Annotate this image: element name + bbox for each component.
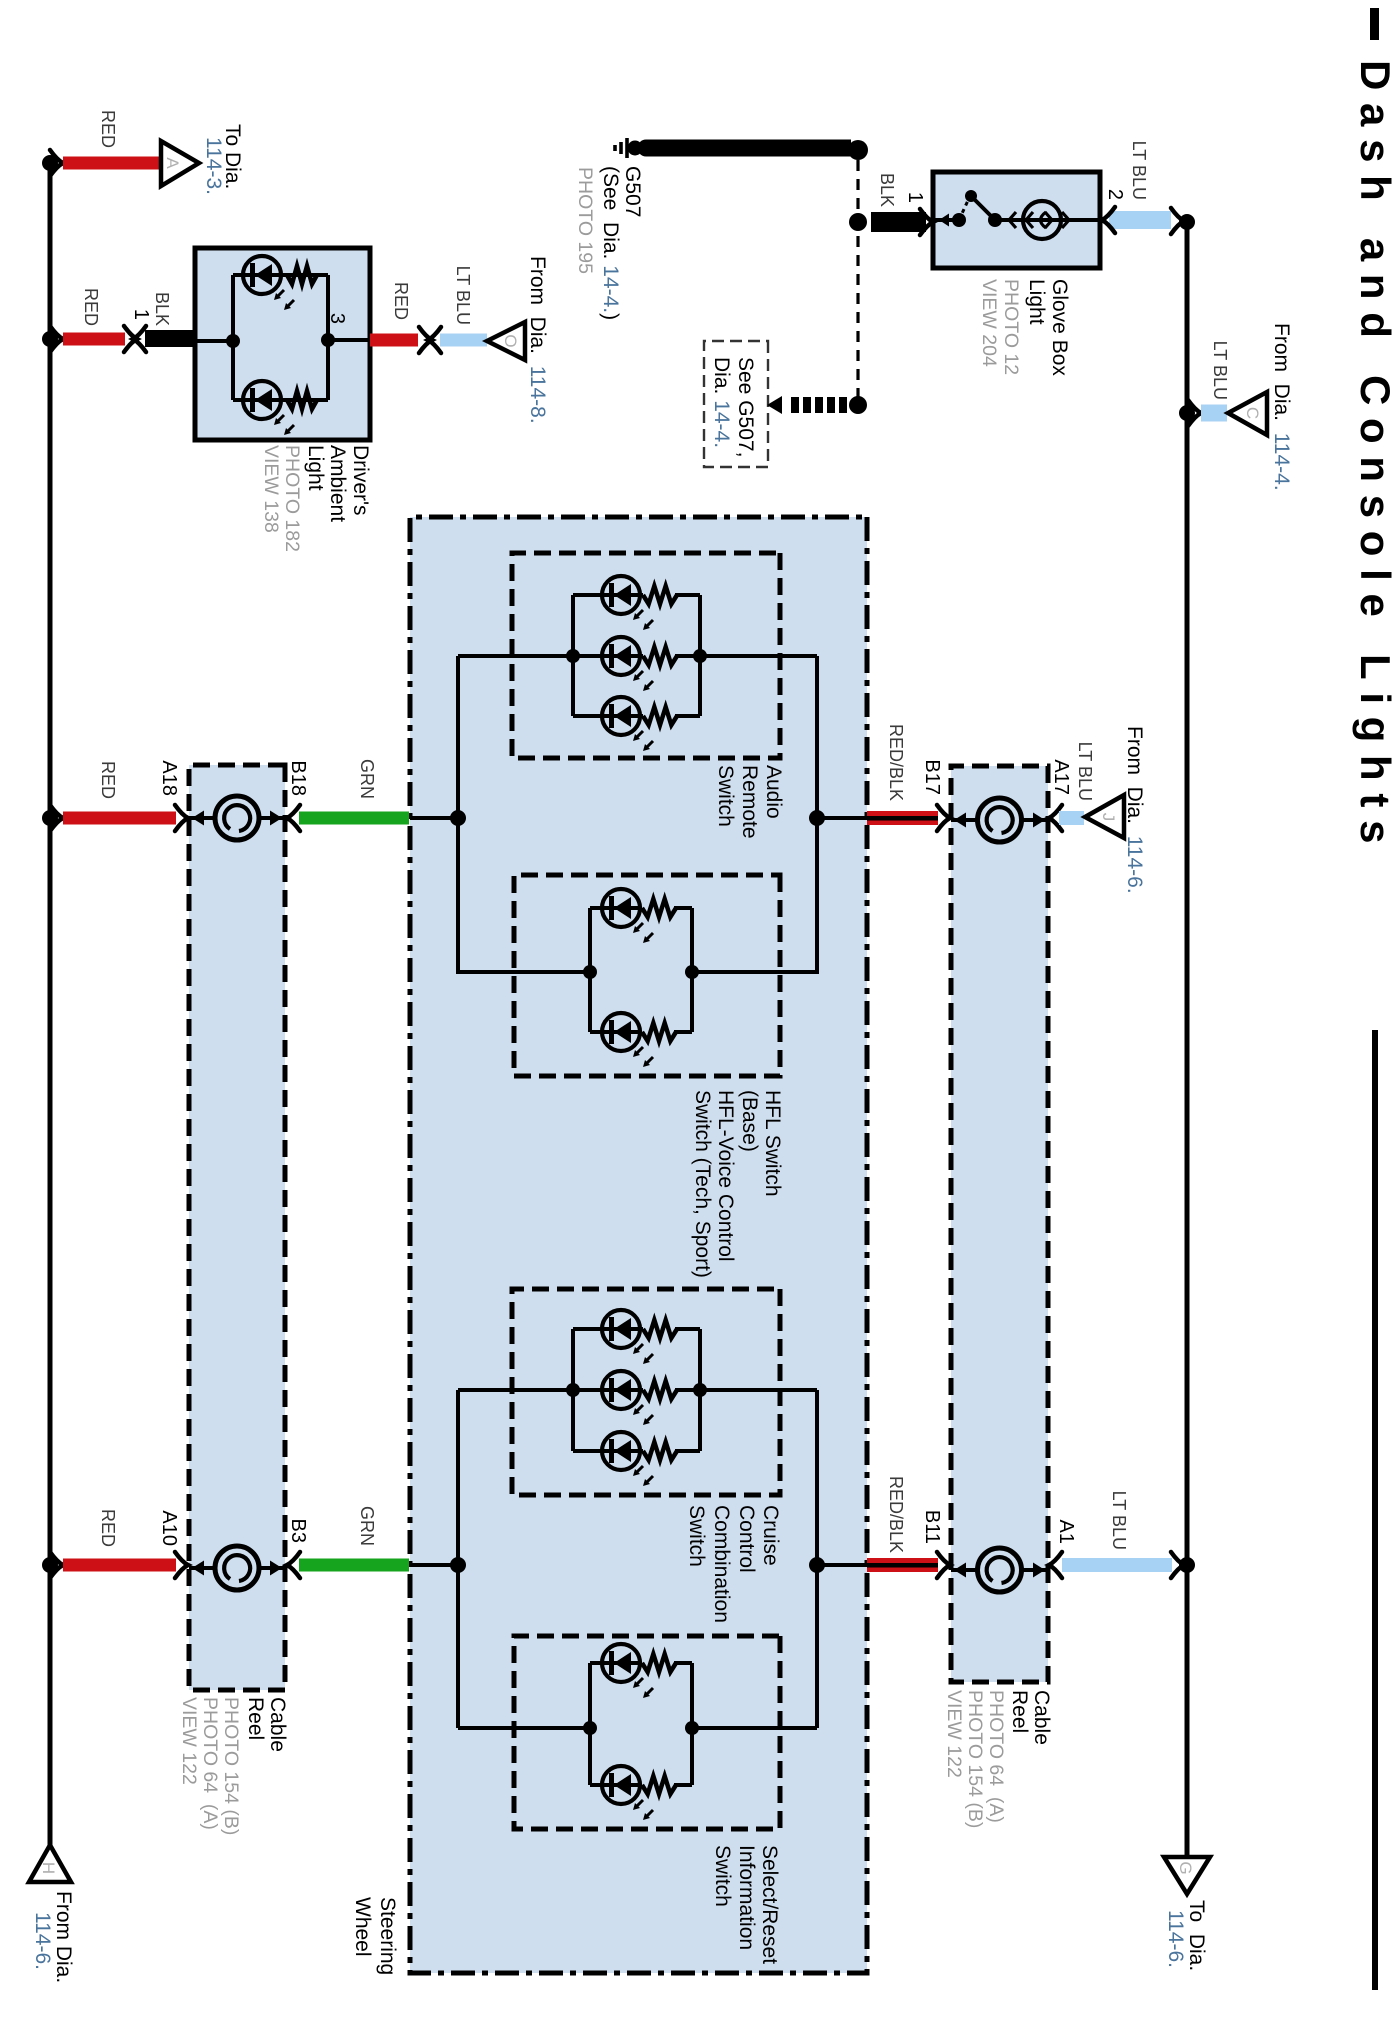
junction dot top feed / B17 tap bbox=[809, 810, 825, 826]
hatched link bar to See G507 note bbox=[839, 397, 847, 413]
svg-text:A17: A17 bbox=[1050, 759, 1072, 795]
svg-text:Steering: Steering bbox=[376, 1897, 399, 1975]
glove box bulb bbox=[1009, 212, 1016, 228]
svg-text:B17: B17 bbox=[921, 759, 943, 795]
junction dots select/reset information switch feed/rails bbox=[685, 1721, 699, 1735]
svg-text:Light: Light bbox=[304, 445, 327, 491]
wire cruise control combination switch branch 1 bbox=[675, 1327, 700, 1331]
svg-text:Driver's: Driver's bbox=[349, 445, 372, 516]
svg-text:HFL Switch: HFL Switch bbox=[761, 1090, 784, 1197]
svg-text:2: 2 bbox=[1104, 189, 1126, 200]
resistor cruise control combination switch branch 2 bbox=[643, 1381, 677, 1399]
pin 2 connector at box bbox=[1102, 207, 1115, 233]
wire top feed left segment bbox=[815, 656, 819, 974]
A10 connector at cable reel bbox=[175, 1552, 188, 1578]
junction dot A10 / bottom bus bbox=[42, 1557, 58, 1573]
svg-text:Switch (Tech, Sport): Switch (Tech, Sport) bbox=[691, 1090, 714, 1278]
wire B17 tap inside box bbox=[817, 816, 867, 820]
svg-text:1: 1 bbox=[130, 309, 152, 320]
title rule bbox=[1372, 1030, 1378, 1990]
triangle O From Dia 114-8 bbox=[487, 322, 525, 360]
cable reel coil B11-A1 bbox=[951, 1568, 977, 1572]
LED cruise control combination switch 3 bbox=[602, 1432, 640, 1470]
pin 2 connector at bus bbox=[1171, 208, 1184, 234]
svg-text:Ambient: Ambient bbox=[326, 445, 349, 522]
svg-text:H: H bbox=[39, 1862, 58, 1874]
dashed ground reference wire bbox=[856, 160, 859, 405]
B3 connector at cable reel bbox=[287, 1552, 300, 1578]
svg-text:GRN: GRN bbox=[357, 759, 377, 799]
svg-text:RED: RED bbox=[98, 1509, 118, 1547]
svg-text:Remote: Remote bbox=[738, 765, 761, 839]
cruise control combination switch box bbox=[512, 1289, 780, 1495]
svg-text:A18: A18 bbox=[158, 760, 180, 796]
svg-text:C: C bbox=[1243, 407, 1262, 419]
triangle J From Dia 114-6 bbox=[1085, 795, 1124, 838]
svg-text:PHOTO 64 (A): PHOTO 64 (A) bbox=[985, 1690, 1007, 1823]
LED cruise control combination switch 2 bbox=[602, 1371, 640, 1409]
svg-text:Control: Control bbox=[735, 1505, 758, 1573]
svg-text:114-6.: 114-6. bbox=[1164, 1910, 1187, 1968]
glove box light internal switch and bulb bbox=[933, 218, 959, 222]
DAL pin1 connector at bus bbox=[50, 326, 63, 352]
branch A RED wire bbox=[63, 157, 159, 170]
resistor HFL switch branch 2 bbox=[642, 1023, 676, 1041]
resistor select/reset information switch branch 1 bbox=[642, 1654, 676, 1672]
top LT BLU bus wire bbox=[1185, 222, 1190, 1857]
steering wheel box bbox=[410, 517, 867, 1973]
svg-text:B11: B11 bbox=[921, 1510, 943, 1544]
svg-text:Cable: Cable bbox=[266, 1697, 289, 1752]
triangle C connector bracket bbox=[1188, 400, 1201, 426]
glove box light pin 2 LT BLU wire bbox=[1109, 211, 1171, 229]
cable reel box right (B17/B11) bbox=[951, 766, 1048, 1682]
svg-text:A1: A1 bbox=[1055, 1520, 1077, 1544]
A1 connector at bus bbox=[1171, 1552, 1184, 1578]
svg-text:GRN: GRN bbox=[357, 1506, 377, 1546]
HFL switch rails bbox=[690, 908, 694, 1032]
bottom RED bus wire bbox=[48, 163, 53, 1845]
junction dot triangle C / top bus bbox=[1179, 405, 1195, 421]
glove box light pin 1 BLK wire stub bbox=[871, 212, 926, 232]
svg-text:O: O bbox=[501, 334, 520, 347]
DAL pin3 connector pair bbox=[419, 327, 432, 353]
LED select/reset information switch 2 bbox=[602, 1766, 640, 1804]
select/reset information switch box bbox=[514, 1636, 780, 1829]
junction dots HFL switch feed/rails bbox=[685, 965, 699, 979]
B3 GRN wire bbox=[299, 1559, 409, 1572]
B18 GRN wire bbox=[299, 812, 409, 825]
DAL pin1 RED wire bbox=[63, 333, 125, 346]
svg-text:B18: B18 bbox=[287, 760, 309, 796]
svg-text:Reel: Reel bbox=[244, 1697, 267, 1740]
wire audio remote switch branch 3 bbox=[675, 714, 700, 718]
svg-text:Switch: Switch bbox=[685, 1505, 708, 1567]
junction dot bottom feed / B18 tap bbox=[450, 810, 466, 826]
svg-text:Glove Box: Glove Box bbox=[1048, 279, 1071, 376]
A18 RED wire bbox=[63, 812, 176, 825]
svg-text:PHOTO 182: PHOTO 182 bbox=[281, 445, 303, 552]
svg-text:RED: RED bbox=[391, 282, 411, 320]
triangle C From Dia. 114-4 bbox=[1228, 392, 1267, 435]
ground G507 heavy BLK wire bbox=[646, 140, 851, 157]
resistor cruise control combination switch branch 1 bbox=[643, 1320, 677, 1338]
svg-text:B3: B3 bbox=[287, 1519, 309, 1543]
B11 RED/BLK wire bbox=[867, 1558, 938, 1572]
resistor select/reset information switch branch 2 bbox=[642, 1776, 676, 1794]
DAL pin3 RED wire bbox=[370, 334, 418, 347]
audio remote switch box bbox=[512, 553, 780, 758]
svg-text:See G507,: See G507, bbox=[734, 357, 757, 457]
junction dots audio remote switch feed/rails bbox=[693, 649, 707, 663]
B17 connector at cable reel bbox=[937, 805, 950, 831]
svg-text:LT BLU: LT BLU bbox=[1129, 141, 1149, 200]
B11 connector at cable reel bbox=[937, 1552, 950, 1578]
resistor audio remote switch branch 2 bbox=[643, 647, 677, 665]
svg-text:RED: RED bbox=[81, 288, 101, 326]
svg-text:VIEW 122: VIEW 122 bbox=[178, 1697, 200, 1785]
wire cruise control combination switch branch 2 bbox=[675, 1388, 700, 1392]
svg-text:Wheel: Wheel bbox=[351, 1897, 374, 1957]
svg-text:J: J bbox=[1099, 813, 1118, 822]
junction dot A1 / top bus bbox=[1179, 1557, 1195, 1573]
select/reset information switch feed stubs bbox=[692, 1726, 817, 1730]
svg-text:Cable: Cable bbox=[1030, 1690, 1053, 1745]
LED audio remote switch 3 bbox=[602, 697, 640, 735]
svg-text:G507: G507 bbox=[621, 166, 644, 217]
A10 connector at bus bbox=[50, 1552, 63, 1578]
svg-text:(See Dia. 14-4.): (See Dia. 14-4.) bbox=[599, 166, 622, 320]
wire B18 tap inside box bbox=[410, 816, 458, 820]
svg-text:114-6.: 114-6. bbox=[31, 1912, 54, 1970]
svg-text:LT BLU: LT BLU bbox=[1109, 1491, 1129, 1550]
hfl switch box bbox=[514, 875, 780, 1076]
svg-text:VIEW 122: VIEW 122 bbox=[943, 1690, 965, 1778]
junction dot top feed / B11 tap bbox=[809, 1557, 825, 1573]
svg-text:3: 3 bbox=[326, 313, 348, 324]
junction dot ground wire / dashed link bbox=[848, 140, 868, 160]
cruise control combination switch feed extensions bbox=[700, 1388, 817, 1392]
DAL pin1 RED female connector bbox=[124, 326, 137, 352]
svg-text:(Base): (Base) bbox=[738, 1090, 761, 1152]
audio remote switch rails bbox=[698, 595, 702, 716]
title dash marker bbox=[1370, 8, 1379, 40]
audio remote switch feed extensions bbox=[700, 654, 817, 658]
driver's ambient light box fill bbox=[195, 248, 370, 440]
junction dot bottom feed / B3 tap bbox=[450, 1557, 466, 1573]
svg-text:Switch: Switch bbox=[714, 765, 737, 827]
see G507 note box bbox=[704, 341, 768, 467]
resistor audio remote switch branch 3 bbox=[643, 707, 677, 725]
svg-text:From Dia.: From Dia. bbox=[52, 1891, 75, 1983]
DAL pin3 LT BLU wire bbox=[440, 334, 487, 347]
svg-text:RED: RED bbox=[98, 110, 118, 148]
select/reset information switch rails bbox=[690, 1663, 694, 1785]
svg-text:RED: RED bbox=[98, 761, 118, 799]
B18 connector at cable reel bbox=[287, 805, 300, 831]
cable reel coil B17-A17 bbox=[951, 818, 977, 822]
branch A connector at bus bbox=[50, 150, 63, 176]
wire bottom feed left segment bbox=[456, 656, 460, 974]
svg-text:Switch: Switch bbox=[711, 1845, 734, 1907]
cable reel coil A18-B18 bbox=[189, 816, 215, 820]
svg-text:PHOTO 195: PHOTO 195 bbox=[574, 167, 596, 274]
wire bottom feed right segment bbox=[456, 1390, 460, 1728]
A17 LT BLU wire bbox=[1059, 811, 1084, 825]
wire B11 tap inside box bbox=[817, 1563, 867, 1567]
A1 LT BLU wire bbox=[1062, 1558, 1172, 1572]
cable reel coil A10-B3 bbox=[189, 1566, 215, 1570]
svg-text:Light: Light bbox=[1025, 279, 1048, 325]
glove box light pin 1 male connector bbox=[920, 209, 933, 235]
svg-text:BLK: BLK bbox=[877, 173, 897, 207]
svg-text:114-3.: 114-3. bbox=[202, 137, 225, 195]
triangle C LT BLU wire bbox=[1201, 405, 1227, 422]
svg-text:Information: Information bbox=[735, 1845, 758, 1950]
svg-text:PHOTO 12: PHOTO 12 bbox=[1000, 279, 1022, 375]
svg-text:From Dia. 114-4.: From Dia. 114-4. bbox=[1270, 323, 1293, 491]
svg-text:1: 1 bbox=[904, 192, 926, 203]
LED audio remote switch 2 bbox=[602, 637, 640, 675]
LED audio remote switch 1 bbox=[602, 576, 640, 614]
junction dot dashed link / glove box pin 1 bbox=[849, 213, 867, 231]
wire HFL switch branch 1 bbox=[674, 906, 692, 910]
svg-text:Dia. 14-4.: Dia. 14-4. bbox=[710, 357, 733, 448]
resistor audio remote switch branch 1 bbox=[643, 586, 677, 604]
glove box light box fill bbox=[933, 172, 1100, 268]
cable reel box left (A18/A10) bbox=[189, 765, 285, 1690]
svg-text:A: A bbox=[163, 157, 182, 169]
DAL pin1 BLK male connector bbox=[133, 326, 146, 352]
svg-text:BLK: BLK bbox=[152, 292, 172, 326]
wire cruise control combination switch branch 3 bbox=[675, 1449, 700, 1453]
svg-text:To Dia.: To Dia. bbox=[1185, 1900, 1208, 1971]
ground symbol G507 bbox=[638, 140, 655, 157]
svg-text:RED/BLK: RED/BLK bbox=[886, 724, 906, 801]
cruise control combination switch rails bbox=[698, 1329, 702, 1451]
svg-text:Combination: Combination bbox=[710, 1505, 733, 1623]
DAL top rail wire bbox=[326, 275, 330, 400]
svg-text:LT BLU: LT BLU bbox=[453, 266, 473, 325]
A1 connector at cable reel bbox=[1049, 1552, 1062, 1578]
A18 connector at cable reel bbox=[175, 805, 188, 831]
wire audio remote switch branch 2 bbox=[675, 654, 700, 658]
svg-text:LT BLU: LT BLU bbox=[1210, 341, 1230, 400]
triangle H From Dia 114-6 bbox=[29, 1845, 71, 1882]
triangle A To Dia. 114-3 bbox=[161, 141, 199, 186]
triangle G To Dia. 114-6 bbox=[1164, 1857, 1210, 1894]
DAL pin1 tap bbox=[195, 339, 233, 343]
arrowhead into See G507 note box bbox=[767, 396, 782, 414]
svg-text:PHOTO 154 (B): PHOTO 154 (B) bbox=[220, 1697, 242, 1835]
wire audio remote switch branch 1 bbox=[675, 593, 700, 597]
wire HFL switch branch 2 bbox=[674, 1030, 692, 1034]
LED HFL switch 2 bbox=[602, 1013, 640, 1051]
svg-text:PHOTO 154 (B): PHOTO 154 (B) bbox=[964, 1690, 986, 1828]
svg-text:A10: A10 bbox=[158, 1510, 180, 1546]
svg-text:From Dia. 114-8.: From Dia. 114-8. bbox=[526, 256, 549, 424]
wire select/reset information switch branch 1 bbox=[674, 1661, 692, 1665]
DAL pin3 tap bbox=[328, 338, 370, 342]
DAL pin1 BLK stub bbox=[145, 330, 193, 347]
svg-text:G: G bbox=[1176, 1861, 1195, 1874]
junction dot DAL / bottom bus bbox=[42, 331, 58, 347]
svg-text:HFL-Voice Control: HFL-Voice Control bbox=[714, 1090, 737, 1262]
svg-text:LT BLU: LT BLU bbox=[1075, 742, 1095, 801]
junction dot A18 / bottom bus bbox=[42, 810, 58, 826]
LED driver's ambient 2 bbox=[243, 381, 281, 419]
resistor HFL switch branch 1 bbox=[642, 899, 676, 917]
LED cruise control combination switch 1 bbox=[602, 1310, 640, 1348]
svg-text:From Dia. 114-6.: From Dia. 114-6. bbox=[1123, 726, 1146, 894]
B17 RED/BLK wire bbox=[867, 811, 938, 825]
LED driver's ambient 1 bbox=[243, 256, 281, 294]
svg-text:PHOTO 64 (A): PHOTO 64 (A) bbox=[199, 1697, 221, 1830]
svg-text:RED/BLK: RED/BLK bbox=[886, 1476, 906, 1553]
LED HFL switch 1 bbox=[602, 889, 640, 927]
svg-text:Audio: Audio bbox=[762, 765, 785, 819]
junction dot pin2 / top bus bbox=[1179, 214, 1195, 230]
resistor cruise control combination switch branch 3 bbox=[643, 1442, 677, 1460]
LED select/reset information switch 1 bbox=[602, 1644, 640, 1682]
junction dot branch A / bottom bus bbox=[42, 155, 58, 171]
wire B3 tap inside box bbox=[410, 1563, 458, 1567]
DAL bottom rail wire bbox=[231, 275, 235, 400]
junction dot dashed link / see-G507 link bbox=[849, 396, 867, 414]
resistor DAL branch 1 bbox=[287, 266, 317, 284]
DAL branch wires bbox=[233, 273, 328, 277]
svg-text:Select/Reset: Select/Reset bbox=[758, 1845, 781, 1964]
junction dots cruise control combination switch feed/rails bbox=[693, 1383, 707, 1397]
svg-text:Dash and Console Lights: Dash and Console Lights bbox=[1352, 60, 1399, 856]
svg-text:VIEW 204: VIEW 204 bbox=[978, 279, 1000, 367]
HFL switch feed stubs bbox=[692, 970, 817, 974]
resistor DAL branch 2 bbox=[287, 391, 317, 409]
svg-text:VIEW 138: VIEW 138 bbox=[260, 445, 282, 533]
A18 connector at bus bbox=[50, 805, 63, 831]
A17 connector at cable reel bbox=[1049, 805, 1062, 831]
svg-text:Reel: Reel bbox=[1008, 1690, 1031, 1733]
wire top feed right segment bbox=[815, 1390, 819, 1728]
wire select/reset information switch branch 2 bbox=[674, 1783, 692, 1787]
svg-text:Cruise: Cruise bbox=[759, 1505, 782, 1566]
A10 RED wire bbox=[63, 1559, 176, 1572]
